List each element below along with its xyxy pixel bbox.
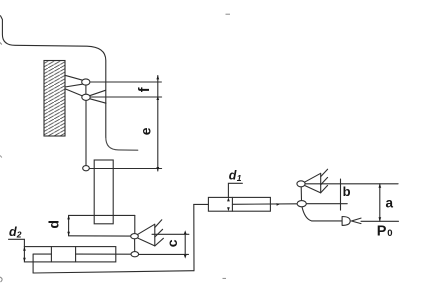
wire extension line f bottom / e top (90, 96, 161, 98)
pivot 6 circle (297, 181, 305, 187)
wire link pivot2 down to pivot3 (85, 100, 87, 167)
svg-text:a: a (386, 196, 394, 211)
svg-text:0: 0 (387, 228, 392, 239)
wire dimension line d vertical (68, 215, 70, 235)
wire wall link to pivot 2 (65, 89, 83, 96)
support triangle at pivot 4 (137, 224, 155, 246)
arrow c bottom (184, 255, 187, 259)
artifact dash top (226, 13, 231, 15)
wire lever bottom arm (69, 235, 131, 237)
wire link pivot1-pivot2 (85, 84, 87, 96)
cylinder d1 body (208, 197, 270, 211)
wire wall link to pivot 1 upper (65, 75, 83, 80)
wire extension line c top (152, 233, 189, 235)
wire wall link to pivot 1 lower (65, 84, 82, 87)
svg-text:1: 1 (237, 173, 242, 183)
wire brake rod curved (top-left) (1, 16, 106, 138)
wire lever b bottom from pivot7 (306, 203, 347, 205)
svg-text:b: b (343, 184, 351, 199)
wire pipe down from d2 (32, 254, 34, 273)
pivot 3 circle (83, 166, 90, 171)
wire extension line c bottom from pivot5 (139, 253, 189, 255)
pivot 4 circle (131, 234, 139, 239)
wire dimension line c vertical (184, 234, 186, 254)
wall anchor hatched (44, 61, 65, 137)
wire link pivot4-pivot5 (134, 239, 136, 252)
svg-text:e: e (138, 127, 154, 135)
wire link pivot6-pivot7 (300, 187, 302, 201)
wire lever arm pivot2 to rod lower (90, 99, 107, 104)
wire piston rod d2 to pivot5 (76, 253, 132, 255)
arrow d2 top (23, 247, 26, 251)
svg-text:c: c (164, 239, 180, 247)
wire piston rod d1 to pivot7 (232, 203, 297, 206)
valve body D shape (342, 217, 350, 226)
wire lever arm pivot2 to rod upper (89, 90, 105, 96)
arrow a bottom (379, 217, 382, 221)
svg-text:d: d (229, 169, 237, 183)
wire rod lower curl (106, 137, 138, 150)
svg-text:d: d (46, 220, 62, 229)
wire lever top arm (69, 214, 135, 216)
wire leader d1 label (228, 183, 242, 197)
arrow d1 bottom (227, 207, 230, 211)
wire leader d2 label (9, 239, 25, 246)
wire curve pivot7 to valve (302, 207, 342, 221)
wire pipe bottom run (33, 271, 194, 273)
arrow a top (379, 184, 382, 188)
pivot 7 circle (297, 201, 306, 207)
arrow f bottom / e top (156, 96, 159, 100)
piston d1 (231, 197, 233, 211)
support hatch marks pivot 6 (321, 169, 328, 193)
artifact hook bottom-left (0, 277, 2, 282)
arrow e bottom (156, 167, 159, 171)
pivot 2 circle (82, 94, 90, 100)
svg-text:f: f (137, 87, 153, 92)
piston d2 right face (75, 247, 77, 262)
wire lever corner down to pivot 4 (134, 215, 136, 233)
wire lever b top from pivot6 (305, 183, 398, 185)
wire dimension line a vertical (379, 184, 381, 222)
arrow f top (156, 75, 159, 79)
piston d2 left face (50, 247, 52, 262)
svg-text:P: P (377, 223, 387, 239)
arrow d2 bottom (23, 258, 26, 262)
artifact mark left edge upper (0, 43, 2, 45)
arrow d bottom (67, 232, 70, 236)
artifact mark left edge mid (0, 156, 2, 158)
arrow d top (67, 215, 70, 219)
pivot 5 circle (131, 252, 139, 257)
valve arrow (352, 218, 362, 224)
svg-text:2: 2 (16, 230, 22, 240)
cylinder d2 body (24, 247, 115, 262)
support hatch marks pivot 4 (155, 220, 164, 246)
wire tick b (340, 179, 342, 210)
cylinder body vertical (bore d) (94, 160, 113, 224)
wire dimension line f and e vertical (157, 76, 159, 172)
wire extension line f top (90, 81, 161, 83)
support triangle at pivot 6 (305, 173, 321, 193)
pivot 1 circle (82, 79, 90, 85)
wire extension line e bottom (89, 168, 161, 170)
svg-text:d: d (9, 225, 17, 239)
wire pipe stub inside d2 (33, 253, 51, 255)
arrow motion on d1 rod (277, 203, 280, 206)
wire pipe into d1 (194, 203, 209, 205)
arrow c top (184, 230, 187, 234)
wire pipe up to d1 (193, 204, 195, 270)
artifact dash bottom (223, 277, 227, 279)
wire force line P0 (361, 220, 399, 222)
arrow d1 top (227, 197, 230, 201)
